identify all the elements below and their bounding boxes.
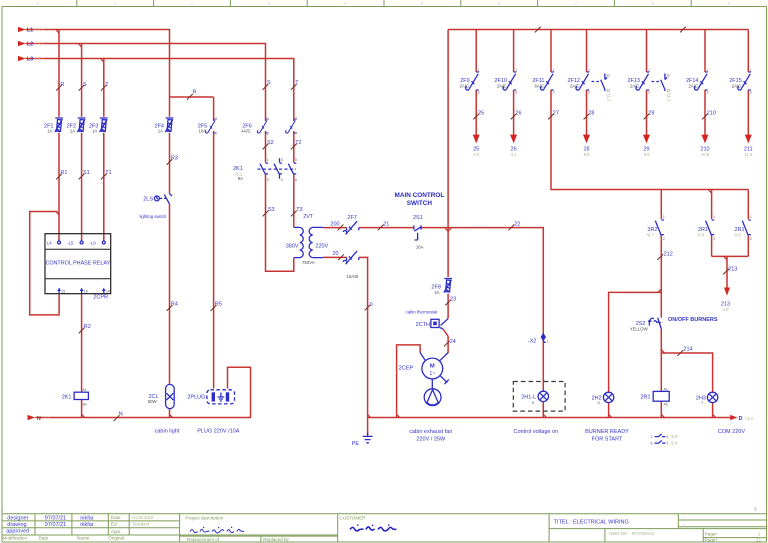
breaker 2F5 labels <box>198 123 207 133</box>
svg-text:16: 16 <box>84 290 88 294</box>
wire label R5 <box>211 302 222 311</box>
aux contact of 2F12 <box>592 74 611 93</box>
wire label 23 <box>445 296 456 305</box>
fuse 2F8 <box>444 279 452 293</box>
svg-text:2: 2 <box>663 237 665 241</box>
wire S column to relay <box>81 44 83 241</box>
svg-text:S: S <box>83 82 87 88</box>
node L1 label <box>27 28 44 34</box>
dest arrow D <box>730 415 737 420</box>
svg-text:220V: 220V <box>315 244 328 250</box>
dest arrow 28 <box>583 135 590 144</box>
frame column ticks <box>77 0 691 7</box>
svg-text:SWITCH: SWITCH <box>407 200 433 207</box>
svg-text:/2.8: /2.8 <box>671 434 679 439</box>
svg-text:Project description: Project description <box>185 515 223 520</box>
node L2 label <box>27 42 44 48</box>
dest arrow 213 <box>724 288 730 296</box>
svg-text:5: 5 <box>421 2 423 6</box>
svg-text:2: 2 <box>750 237 752 241</box>
svg-text:213: 213 <box>728 266 737 272</box>
svg-text:8.8: 8.8 <box>584 152 590 157</box>
fuse 2F2 labels <box>67 123 76 133</box>
wire label S column <box>79 82 87 91</box>
svg-text:cabin thermostat: cabin thermostat <box>406 310 439 315</box>
svg-text:Y: Y <box>701 401 704 405</box>
svg-text:2: 2 <box>267 131 269 135</box>
svg-text:6: 6 <box>651 441 653 445</box>
svg-text:DWG NO. : 970729GAC: DWG NO. : 970729GAC <box>609 531 654 536</box>
svg-text:/11.2: /11.2 <box>666 93 671 103</box>
svg-text:60W: 60W <box>148 399 158 404</box>
wire label 214 <box>677 347 692 356</box>
svg-text:S2: S2 <box>267 140 274 146</box>
svg-text:Page+: Page+ <box>705 538 719 543</box>
svg-text:4A/C: 4A/C <box>241 129 251 134</box>
svg-text:COM 220V: COM 220V <box>718 429 746 435</box>
fuse 2F4 <box>165 118 173 132</box>
wire label N mid <box>114 411 123 421</box>
svg-text:R4: R4 <box>171 302 178 308</box>
svg-text:-L5: -L5 <box>67 241 74 246</box>
dest arrow 210 <box>702 135 709 144</box>
svg-text:Control voltage on: Control voltage on <box>513 429 558 435</box>
lamp 2H3 labels <box>696 396 706 406</box>
svg-text:11.0: 11.0 <box>744 152 753 157</box>
svg-text:-L6: -L6 <box>90 241 97 246</box>
wire 3R2 branch 212 <box>660 190 662 418</box>
svg-text:drawing: drawing <box>7 522 26 528</box>
svg-text:11: 11 <box>606 74 610 78</box>
wire top distribution bus <box>448 30 748 228</box>
coil 2K1 <box>74 388 88 407</box>
wire label R4 <box>167 302 178 311</box>
fuse 2F1 <box>55 118 63 132</box>
svg-text:0: 0 <box>37 2 39 6</box>
dest arrow 211 <box>745 135 752 144</box>
wire 2F15 column 211 <box>747 30 749 136</box>
svg-text:1: 1 <box>651 435 653 439</box>
wire 2F13 column 29 <box>646 30 648 136</box>
svg-text:cabin exhaust fan: cabin exhaust fan <box>409 429 452 435</box>
svg-text:2K1: 2K1 <box>62 394 72 400</box>
source arrow L3 <box>18 56 26 61</box>
lamp 2CL labels <box>148 394 159 404</box>
svg-text:L2: L2 <box>27 42 33 48</box>
wire label 22 <box>509 221 521 230</box>
breaker 2F6 pole S <box>257 119 267 133</box>
svg-text:A1: A1 <box>664 387 668 391</box>
wire 2F10 column 26 <box>513 30 515 136</box>
breaker row labels 2F12 <box>567 78 580 89</box>
svg-text:R3: R3 <box>171 156 178 162</box>
svg-text:2: 2 <box>267 178 269 182</box>
terminal -X2 <box>528 333 549 345</box>
wire 214 2H3 branch <box>661 353 712 418</box>
svg-text:R2: R2 <box>84 324 91 330</box>
label D arrow <box>739 416 754 422</box>
svg-text:2H1-L: 2H1-L <box>521 395 536 401</box>
wire relay pin15 loop <box>30 212 59 315</box>
svg-text:R5: R5 <box>215 302 222 308</box>
svg-text:designer: designer <box>7 515 28 521</box>
wire transformer secondary top / control <box>323 228 543 418</box>
svg-text:22: 22 <box>514 221 520 227</box>
dest label 211 <box>744 146 753 157</box>
svg-text:L3: L3 <box>27 57 33 63</box>
wire R2 relay pin16 to 2K1 coil <box>81 294 83 417</box>
wire transformer secondary bottom / 0 <box>323 257 368 435</box>
svg-text:1: 1 <box>713 215 715 219</box>
svg-text:T2: T2 <box>295 140 301 146</box>
svg-text:5: 5 <box>295 158 297 162</box>
svg-text:18: 18 <box>106 290 110 294</box>
wire label 210 <box>702 110 716 119</box>
svg-text:1: 1 <box>215 117 217 121</box>
svg-text:6: 6 <box>498 2 500 6</box>
svg-text:9.8: 9.8 <box>644 152 650 157</box>
contact 3R2 labels <box>647 227 658 237</box>
wire label T1 <box>101 170 112 179</box>
wire L3 feed / T branch <box>26 59 294 228</box>
svg-text:-: - <box>683 521 685 526</box>
svg-text:2: 2 <box>215 131 217 135</box>
svg-text:2: 2 <box>758 532 761 537</box>
svg-text:Ed.: Ed. <box>111 522 118 527</box>
svg-text:Page+: Page+ <box>705 532 719 537</box>
svg-text:2S1: 2S1 <box>413 215 423 221</box>
fuse 2F2 <box>77 118 85 132</box>
svg-text:R1: R1 <box>60 170 67 176</box>
svg-text:10A/B: 10A/B <box>347 274 359 279</box>
svg-text:/11.2: /11.2 <box>606 93 611 103</box>
dest label 25 <box>473 146 480 157</box>
svg-text:28: 28 <box>588 110 594 116</box>
svg-text:2: 2 <box>648 91 650 95</box>
svg-text:ON/OFF BURNERS: ON/OFF BURNERS <box>668 317 718 323</box>
source arrow N <box>28 415 36 420</box>
svg-text:A1: A1 <box>83 388 87 392</box>
svg-text:8: 8 <box>652 2 654 6</box>
breaker 2F9 <box>466 72 479 90</box>
contact 2R1a labels <box>697 227 708 237</box>
fuse 2F3 <box>100 118 108 132</box>
svg-text:7: 7 <box>666 441 668 445</box>
relay 2CPR top pin L5 <box>67 240 83 246</box>
wire 2F12 column 28 <box>586 30 588 136</box>
wire label T column <box>101 82 109 91</box>
wire 2F8 / thermostat branch <box>443 228 448 353</box>
relay 2CPR box <box>45 234 111 294</box>
breaker 2F7 pole 1 horizontal <box>343 221 359 234</box>
dest label 213 <box>721 302 730 312</box>
relay 2CPR bottom pin 18 <box>102 288 110 294</box>
relay 2CPR top pin L4 <box>47 240 61 246</box>
coil 2R1 <box>653 387 669 406</box>
svg-text:1: 1 <box>267 158 269 162</box>
svg-text:S1: S1 <box>83 170 90 176</box>
breaker 2F15 <box>738 72 751 90</box>
svg-text:BURNER READY: BURNER READY <box>585 429 629 435</box>
wire 2R1 contacts parallel <box>712 190 749 289</box>
svg-text:27: 27 <box>553 110 559 116</box>
2LS labels <box>140 197 167 220</box>
svg-text:3: 3 <box>666 435 668 439</box>
svg-text:4: 4 <box>295 131 297 135</box>
wire label 213 <box>723 266 737 274</box>
switch 2S2 <box>648 316 661 329</box>
breaker 2F6 pole T <box>286 119 296 133</box>
breaker 2F13 <box>636 72 649 90</box>
svg-text:L4: L4 <box>47 241 52 246</box>
wire label S2 <box>263 140 274 149</box>
fan motor 2CEP <box>420 353 449 389</box>
wire label R column <box>56 82 64 91</box>
caption burner ready <box>585 429 629 443</box>
thermostat 2CTH <box>431 319 448 330</box>
svg-text:lighting switch: lighting switch <box>140 214 167 219</box>
breaker 2F10 <box>503 72 516 90</box>
wire label 200 <box>330 221 343 230</box>
switch 2S1 labels <box>413 215 424 250</box>
wire bottom 220V bus <box>368 417 731 419</box>
svg-text:2A/C: 2A/C <box>497 84 507 89</box>
breaker 2F5 <box>205 119 215 133</box>
svg-text:210: 210 <box>707 110 716 116</box>
svg-text:6: 6 <box>295 178 297 182</box>
wire label 25 <box>473 110 484 119</box>
wire label R1 <box>56 170 67 179</box>
svg-text:R: R <box>60 82 64 88</box>
wire label 26 <box>511 110 522 119</box>
svg-text:FOR START: FOR START <box>592 436 623 442</box>
svg-text:11: 11 <box>666 74 670 78</box>
svg-text:Date: Date <box>111 515 121 520</box>
svg-text:2LS: 2LS <box>143 197 153 203</box>
svg-text:750VA: 750VA <box>302 260 315 265</box>
svg-text:2: 2 <box>713 237 715 241</box>
frame column numbers <box>37 2 730 6</box>
svg-text:1: 1 <box>515 68 517 72</box>
svg-text:L1: L1 <box>27 28 33 34</box>
breaker 2F12 <box>576 72 589 90</box>
contact 2R1b labels <box>734 227 745 237</box>
svg-text:1: 1 <box>750 215 752 219</box>
switch 2S1 <box>414 225 421 240</box>
contactor 2K1 dashed link <box>258 168 297 170</box>
dest arrow 26 <box>510 135 517 144</box>
component pin numbers <box>215 68 752 240</box>
wire R column to relay <box>58 30 60 241</box>
node N label <box>37 416 50 422</box>
svg-text:2: 2 <box>515 91 517 95</box>
wire label 27 <box>548 110 559 119</box>
svg-text:MAIN CONTROL: MAIN CONTROL <box>395 192 445 199</box>
svg-text:1A: 1A <box>70 129 75 134</box>
svg-text:10.8: 10.8 <box>701 152 710 157</box>
svg-text:3: 3 <box>268 2 270 6</box>
svg-text:1: 1 <box>267 117 269 121</box>
svg-text:2CTH: 2CTH <box>416 322 430 328</box>
svg-text:S3: S3 <box>268 207 275 213</box>
svg-text:1: 1 <box>648 68 650 72</box>
svg-text:/2.8: /2.8 <box>671 440 679 445</box>
svg-text:9A: 9A <box>238 176 243 181</box>
svg-text:12: 12 <box>756 538 761 543</box>
svg-text:1: 1 <box>547 340 549 344</box>
dest arrow 25 <box>473 135 480 144</box>
svg-text:29: 29 <box>648 110 654 116</box>
caption cabin exhaust fan <box>409 429 452 443</box>
svg-text:1: 1 <box>114 2 116 6</box>
svg-text:220V / 25W: 220V / 25W <box>416 436 446 442</box>
wire label T2 <box>291 140 302 149</box>
wire 2F9 column 25 <box>475 30 477 136</box>
breaker row labels 2F11 <box>532 78 544 89</box>
breaker 2F11 <box>540 72 553 90</box>
project description persian text <box>190 527 244 533</box>
wire label 20 <box>333 251 344 260</box>
svg-text:2: 2 <box>478 91 480 95</box>
breaker 2F14 <box>694 72 707 90</box>
svg-text:1: 1 <box>663 215 665 219</box>
svg-text:1: 1 <box>478 68 480 72</box>
source arrow L2 <box>18 41 26 46</box>
svg-text:2R1: 2R1 <box>641 395 651 401</box>
svg-text:G: G <box>597 401 600 405</box>
dest arrow 29 <box>643 135 650 144</box>
wire label R2 <box>79 324 91 333</box>
svg-text:214: 214 <box>683 347 692 353</box>
svg-text:A2: A2 <box>664 403 668 407</box>
svg-text:1: 1 <box>750 68 752 72</box>
svg-text:4.0: 4.0 <box>723 307 729 312</box>
wire L1 feed <box>26 30 214 385</box>
svg-text:PLUG 220V /10A: PLUG 220V /10A <box>197 428 240 434</box>
svg-text:YELLOW: YELLOW <box>630 327 649 332</box>
svg-text:26: 26 <box>515 110 521 116</box>
contact 3R2 <box>655 220 664 236</box>
junction chevrons <box>56 30 727 418</box>
lamp 2H3 <box>707 392 717 402</box>
wire label 28 <box>584 110 595 119</box>
svg-text:2CEP: 2CEP <box>399 366 414 372</box>
wire label S3 <box>263 207 275 216</box>
switch 2S2 labels <box>630 321 649 331</box>
svg-text:1~: 1~ <box>429 371 435 377</box>
svg-text:T1: T1 <box>105 170 111 176</box>
svg-text:nikfar: nikfar <box>80 522 94 528</box>
svg-text:PE: PE <box>352 441 360 447</box>
svg-text:-: - <box>683 515 685 520</box>
wire R5 branch <box>213 97 215 389</box>
svg-text:20: 20 <box>333 251 339 257</box>
svg-text:2A/C: 2A/C <box>460 84 470 89</box>
plug 2PLUG <box>207 390 235 404</box>
svg-text:1A: 1A <box>92 129 97 134</box>
contactor 2K1 labels <box>233 166 243 181</box>
wire label S <box>263 80 272 90</box>
contactor 2K1 contact pole 3-4 <box>274 158 282 179</box>
node L3 label <box>27 57 44 63</box>
svg-text:A2: A2 <box>83 402 87 406</box>
wire 2H2 branch <box>609 292 662 417</box>
wire label R3 <box>167 156 178 165</box>
wire label T <box>291 80 299 90</box>
svg-text:Replaced by: Replaced by <box>263 537 289 542</box>
svg-text:1A: 1A <box>158 129 163 134</box>
svg-text:2: 2 <box>588 91 590 95</box>
contactor 2K1 contact pole 5-6 <box>288 163 296 174</box>
svg-text:04.08.2010: 04.08.2010 <box>132 515 154 520</box>
svg-text:N: N <box>37 416 41 422</box>
wire 2F11 column 27 <box>551 30 748 190</box>
breaker row labels 2F10 <box>495 78 508 89</box>
wire 2F14 column 210 <box>704 30 706 136</box>
svg-text:approved: approved <box>6 528 29 534</box>
svg-text:2: 2 <box>553 91 555 95</box>
svg-text:2A/C: 2A/C <box>732 84 742 89</box>
svg-text:2CPR: 2CPR <box>93 295 108 301</box>
svg-text:CUSTOMER: CUSTOMER <box>339 515 366 520</box>
svg-text:7: 7 <box>575 2 577 6</box>
svg-text:15: 15 <box>61 290 65 294</box>
svg-text:2: 2 <box>750 91 752 95</box>
svg-text:1: 1 <box>707 68 709 72</box>
ground PE <box>363 433 373 443</box>
svg-text:Standard: Standard <box>132 522 150 527</box>
svg-text:2VT: 2VT <box>303 214 314 220</box>
svg-text:-X2: -X2 <box>528 339 537 345</box>
relay 2CPR bottom pin 15 <box>57 288 65 294</box>
wire L2 feed / S branch <box>26 44 294 272</box>
svg-text:2A/C: 2A/C <box>688 84 698 89</box>
svg-text:380V: 380V <box>286 244 299 250</box>
breaker 2F6 labels <box>241 123 252 133</box>
svg-text:23: 23 <box>450 296 456 302</box>
svg-text:4: 4 <box>344 2 346 6</box>
svg-text:4.1: 4.1 <box>511 152 517 157</box>
svg-text:1A: 1A <box>47 129 52 134</box>
breaker row labels 2F14 <box>686 78 699 89</box>
thermostat labels <box>406 310 439 328</box>
svg-text:25: 25 <box>478 110 484 116</box>
svg-text:3: 3 <box>295 117 297 121</box>
svg-text:9: 9 <box>728 2 730 6</box>
svg-text:T3: T3 <box>296 207 302 213</box>
breaker 2F7 labels <box>347 215 359 279</box>
svg-text:Appr: Appr <box>111 529 121 534</box>
svg-text:cabin light: cabin light <box>155 428 180 434</box>
svg-text:/9.7: /9.7 <box>647 233 655 238</box>
dest label 26 <box>511 146 518 157</box>
svg-text:Modification: Modification <box>3 536 28 541</box>
lamp 2CL capsule <box>166 384 175 408</box>
svg-text:16A: 16A <box>416 245 424 250</box>
breaker row labels 2F9 <box>460 78 470 89</box>
svg-text:200: 200 <box>330 221 339 227</box>
dest label 210 <box>700 146 709 157</box>
svg-text:N: N <box>532 401 535 405</box>
breaker 2F7 pole 2 horizontal <box>343 251 359 264</box>
wire label 212 <box>657 251 672 260</box>
source arrow L1 <box>18 27 26 32</box>
svg-text:T: T <box>105 82 109 88</box>
svg-text:Replacement of: Replacement of <box>187 537 220 542</box>
svg-text:1: 1 <box>588 68 590 72</box>
transformer 2VT secondary winding <box>309 227 323 257</box>
wire label S1 <box>79 170 90 179</box>
